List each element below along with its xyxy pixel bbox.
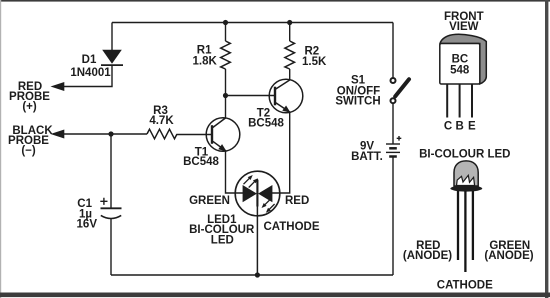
wire T1 base node to T2 base	[226, 95, 275, 97]
black probe arrow	[51, 130, 65, 139]
svg-text:VIEW: VIEW	[449, 21, 479, 33]
wire R2 to T2 collector	[289, 69, 291, 80]
wire C1 branch	[110, 134, 112, 208]
svg-text:4.7K: 4.7K	[149, 115, 174, 127]
LED package drawing	[450, 161, 482, 192]
wire diode branch	[111, 23, 113, 51]
wire switch branch	[392, 23, 394, 78]
wire R2 top	[289, 23, 291, 42]
svg-text:SWITCH: SWITCH	[335, 95, 380, 107]
frame left	[0, 0, 1, 298]
node junction LED cathode bottom rail	[255, 272, 260, 277]
wire diode to red probe	[64, 65, 112, 86]
frame right	[545, 0, 548, 298]
switch S1	[391, 78, 410, 103]
wire T2 emitter to LED red anode	[272, 112, 290, 193]
transistor T2	[269, 79, 303, 115]
frame top	[0, 0, 550, 2]
wire LED cathode	[256, 179, 258, 275]
diode D1	[101, 50, 123, 65]
svg-text:CATHODE: CATHODE	[437, 280, 493, 292]
svg-text:548: 548	[450, 64, 470, 76]
resistor R3	[147, 129, 177, 139]
svg-text:BI-COLOUR LED: BI-COLOUR LED	[419, 149, 510, 161]
svg-text:BATT.: BATT.	[351, 151, 383, 163]
transistor package TO-92 front view	[440, 34, 487, 84]
red probe arrow	[51, 82, 65, 91]
transistor T1	[206, 118, 240, 154]
svg-text:(−): (−)	[21, 145, 36, 157]
svg-text:(+): (+)	[22, 101, 37, 113]
resistor R1	[221, 41, 231, 69]
resistor R2	[285, 41, 295, 69]
frame bottom	[0, 293, 550, 298]
svg-text:C: C	[444, 121, 452, 133]
wire bottom rail	[111, 274, 393, 276]
svg-text:BC548: BC548	[183, 156, 219, 168]
node junction black probe / C1	[108, 131, 113, 136]
capacitor C1	[100, 198, 121, 219]
svg-text:1.5K: 1.5K	[302, 56, 327, 68]
svg-text:(ANODE): (ANODE)	[484, 250, 533, 262]
svg-text:GREEN: GREEN	[189, 195, 230, 207]
svg-text:(ANODE): (ANODE)	[403, 250, 452, 262]
node junction top rail R1	[223, 20, 228, 25]
svg-text:B: B	[456, 121, 464, 133]
svg-text:D1: D1	[82, 54, 97, 66]
node junction R1 / T1 collector / T2 base	[223, 93, 228, 98]
wire R3 to T1 base	[177, 134, 211, 136]
bi-colour LED LED1	[235, 171, 280, 216]
wire R1 bottom to T1 collector	[225, 69, 227, 118]
wire R1 top	[225, 23, 227, 42]
svg-text:LED: LED	[211, 234, 234, 246]
wire top rail	[112, 22, 393, 24]
svg-text:E: E	[468, 121, 476, 133]
svg-text:RED: RED	[285, 195, 309, 207]
battery BT1 9V	[386, 136, 401, 157]
svg-text:1.8K: 1.8K	[193, 56, 218, 68]
node junction top rail R2	[287, 20, 292, 25]
LED package legs	[458, 191, 473, 272]
wire switch to battery	[392, 104, 394, 144]
svg-text:1N4001: 1N4001	[70, 67, 111, 79]
TO-92 legs	[447, 85, 472, 118]
svg-text:CATHODE: CATHODE	[264, 221, 320, 233]
wire black probe to R3	[64, 133, 147, 135]
wire battery to bottom rail	[392, 156, 394, 275]
wire T1 emitter to LED green anode	[226, 151, 244, 193]
svg-text:16V: 16V	[77, 219, 98, 231]
svg-text:BC548: BC548	[248, 118, 284, 130]
wire C1 to bottom rail	[110, 218, 112, 275]
